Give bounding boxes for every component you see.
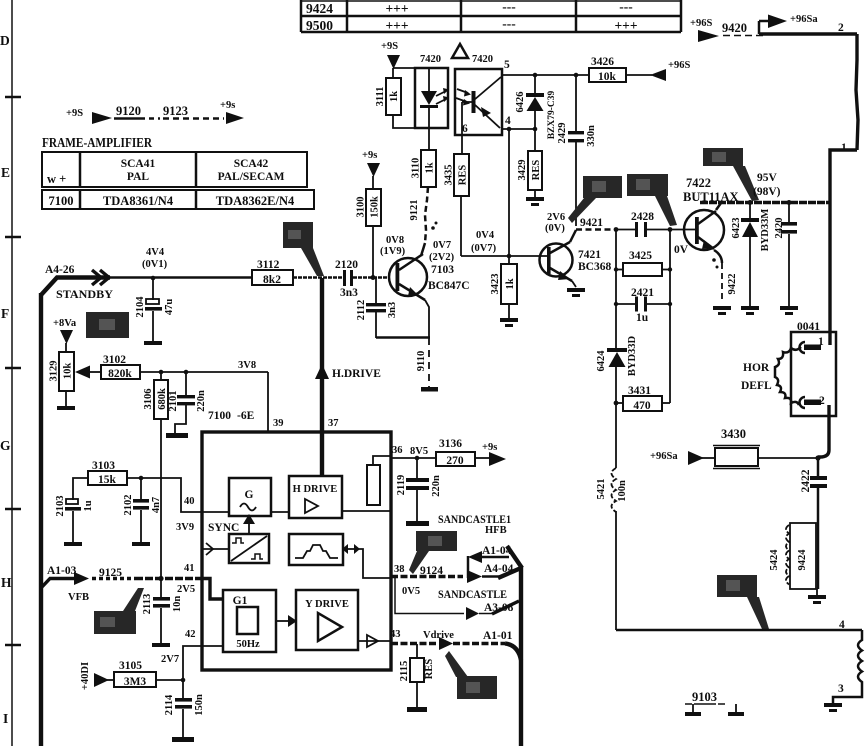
svg-text:220n: 220n (196, 390, 207, 412)
svg-text:3n3: 3n3 (387, 302, 398, 318)
svg-text:1k: 1k (425, 162, 436, 173)
svg-text:+40DI: +40DI (80, 662, 91, 690)
optocoupler 7420 LED box (415, 68, 448, 128)
svg-text:TDA8361/N4: TDA8361/N4 (103, 194, 174, 208)
wire pin 36 (391, 457, 436, 459)
wire right edge rail step (830, 150, 857, 203)
block H DRIVE (289, 476, 342, 518)
svg-text:37: 37 (328, 418, 339, 429)
svg-text:2420: 2420 (774, 218, 785, 239)
resistor 3100 150k (366, 189, 381, 226)
svg-text:H.DRIVE: H.DRIVE (332, 368, 381, 380)
wire emitter rail (376, 336, 430, 339)
svg-text:+96S: +96S (668, 60, 690, 71)
svg-text:STANDBY: STANDBY (56, 289, 114, 301)
svg-text:---: --- (619, 0, 633, 14)
wire 3111 bottom (393, 115, 429, 128)
svg-text:5424: 5424 (769, 549, 780, 571)
svg-text:+96Sa: +96Sa (650, 451, 678, 462)
svg-text:9422: 9422 (727, 274, 738, 295)
svg-text:7420: 7420 (472, 54, 493, 65)
svg-text:9121: 9121 (409, 200, 420, 221)
ground 7421 emitter (572, 281, 576, 287)
svg-text:10k: 10k (63, 363, 74, 380)
svg-text:5421: 5421 (596, 479, 607, 500)
svg-text:9424: 9424 (797, 549, 808, 571)
svg-text:47u: 47u (164, 299, 175, 316)
svg-text:150k: 150k (370, 196, 381, 218)
svg-text:2422: 2422 (800, 469, 812, 492)
wire pin41 internal (202, 579, 223, 600)
svg-text:---: --- (502, 0, 516, 14)
wire +9S to 3111 (392, 68, 394, 78)
svg-text:2: 2 (838, 22, 844, 34)
wire G1 to Y DRIVE (276, 620, 292, 622)
capacitor 2102 4n7 (140, 478, 142, 500)
svg-text:7100: 7100 (49, 194, 74, 208)
svg-text:3430: 3430 (721, 427, 746, 441)
svg-text:2428: 2428 (631, 211, 654, 223)
svg-text:+96S: +96S (690, 18, 712, 29)
capacitor 2113 10n (160, 578, 162, 598)
svg-text:PAL/SECAM: PAL/SECAM (218, 171, 285, 183)
svg-text:PAL: PAL (127, 171, 149, 183)
svg-text:A3-08: A3-08 (484, 602, 514, 614)
resistor 3435 RES (454, 154, 469, 196)
svg-text:2V6: 2V6 (547, 212, 565, 223)
svg-text:9125: 9125 (99, 567, 122, 579)
block sync separator (229, 534, 269, 563)
svg-text:-6E: -6E (237, 410, 255, 422)
wire 3103 left to 2103 (73, 478, 88, 500)
svg-text:3110: 3110 (411, 158, 422, 178)
wire 3100 to base node (372, 226, 374, 278)
svg-text:2113: 2113 (142, 594, 153, 614)
callout note 1 (283, 222, 313, 248)
callout note 9421a (583, 176, 622, 198)
grid tick G/H (5, 508, 21, 511)
wire A1-04 input (480, 556, 509, 559)
inductor 5421 100n (612, 468, 617, 512)
diode 6424 BYD33D (607, 348, 627, 352)
wire A-bar junction (467, 556, 470, 578)
svg-text:D: D (0, 33, 10, 48)
svg-text:3425: 3425 (629, 250, 652, 262)
wire 9110 dashed (428, 338, 430, 387)
svg-text:3: 3 (838, 683, 844, 695)
svg-text:8k2: 8k2 (263, 274, 281, 286)
capacitor 2429 330n (575, 75, 577, 131)
wire pin 42 (183, 646, 202, 699)
resistor 3111 1k (386, 78, 401, 115)
svg-text:+96Sa: +96Sa (790, 14, 818, 25)
svg-text:0V: 0V (674, 244, 689, 256)
svg-text:3136: 3136 (439, 438, 462, 450)
resistor 2115 RES (416, 644, 418, 658)
wire H.DRIVE vertical (320, 278, 324, 432)
svg-text:+9S: +9S (381, 41, 398, 52)
svg-text:0V5: 0V5 (402, 586, 420, 597)
svg-text:9123: 9123 (163, 104, 188, 118)
svg-text:1k: 1k (389, 91, 400, 102)
wire bottom rail (616, 629, 862, 632)
capacitor 2112 3n3 (375, 278, 377, 304)
svg-text:2101: 2101 (168, 391, 179, 412)
border frame left rule (11, 0, 13, 746)
svg-text:w +: w + (47, 172, 66, 186)
svg-text:+++: +++ (614, 18, 637, 33)
svg-text:10n: 10n (172, 596, 183, 613)
ground bottom right (824, 703, 842, 712)
connector 0041 box (791, 332, 836, 416)
grid tick F/G (5, 367, 21, 370)
svg-text:5: 5 (504, 59, 510, 71)
wire +96S top rail horizontal (759, 32, 857, 35)
svg-text:A4-26: A4-26 (45, 264, 75, 276)
svg-text:+++: +++ (385, 1, 408, 16)
block G1 (223, 590, 276, 652)
wire pin4 down to 3423 (508, 129, 510, 264)
wire pin 38 internal (358, 549, 391, 578)
svg-text:A4-04: A4-04 (484, 563, 514, 575)
wire pin37 into H DRIVE (320, 432, 324, 476)
transistor 7421 BC368 (540, 244, 573, 277)
callout note 9421b (627, 174, 668, 196)
svg-text:6423: 6423 (731, 218, 742, 239)
svg-text:RES: RES (424, 659, 435, 680)
svg-text:6: 6 (462, 123, 468, 135)
svg-text:3V8: 3V8 (238, 360, 256, 371)
callout note sandcastle (416, 531, 457, 551)
node H.DRIVE arrow (315, 364, 329, 379)
svg-text:BYD33D: BYD33D (627, 335, 638, 376)
svg-text:15k: 15k (98, 474, 117, 486)
svg-text:2102: 2102 (123, 495, 134, 516)
wire STANDBY vertical rail (39, 293, 43, 746)
wire rail 616 lower (615, 403, 617, 468)
phototransistor light arrows (457, 89, 468, 93)
svg-text:2421: 2421 (631, 287, 654, 299)
svg-text:SCA42: SCA42 (234, 158, 269, 170)
svg-text:(0V): (0V) (545, 223, 565, 234)
svg-text:220n: 220n (431, 475, 442, 497)
grid tick H/I (5, 644, 21, 647)
svg-text:I: I (3, 711, 8, 726)
svg-text:330n: 330n (586, 125, 597, 147)
svg-text:+9S: +9S (66, 108, 83, 119)
svg-text:7100: 7100 (208, 410, 231, 422)
wire connector rail (519, 566, 523, 746)
wire STANDBY rail corner (41, 278, 110, 296)
svg-text:2429: 2429 (557, 123, 568, 144)
svg-text:36: 36 (392, 445, 403, 456)
svg-text:H: H (1, 575, 12, 590)
capacitor 2422 (817, 458, 820, 477)
wire pin2 down rail (818, 405, 829, 457)
svg-text:HOR: HOR (743, 362, 770, 374)
inductor right edge (833, 630, 862, 703)
wire 9421 dashed (576, 228, 616, 231)
svg-text:3100: 3100 (356, 197, 367, 218)
svg-text:9120: 9120 (116, 104, 141, 118)
svg-text:680k: 680k (157, 388, 168, 410)
svg-text:1k: 1k (505, 278, 516, 289)
svg-text:470: 470 (633, 400, 651, 412)
block pulse shaper (289, 534, 343, 565)
svg-text:A1-01: A1-01 (483, 630, 513, 642)
svg-text:7420: 7420 (420, 54, 441, 65)
svg-text:7103: 7103 (431, 264, 454, 276)
wire 9125 VFB entry (41, 579, 76, 589)
wire 9121 dashed (425, 187, 428, 243)
svg-text:BYD33M: BYD33M (760, 209, 771, 252)
svg-text:2112: 2112 (356, 300, 367, 320)
diode 6426 BZX79-C39 (534, 75, 536, 93)
capacitor 2114 150n (175, 698, 192, 702)
svg-text:39: 39 (273, 418, 284, 429)
svg-text:(0V1): (0V1) (142, 259, 168, 270)
svg-text:3129: 3129 (49, 361, 60, 382)
callout note 95V (703, 148, 743, 166)
svg-text:4: 4 (505, 115, 511, 127)
svg-text:BZX79-C39: BZX79-C39 (547, 90, 557, 139)
svg-text:2120: 2120 (335, 259, 358, 271)
svg-text:2114: 2114 (164, 694, 175, 715)
svg-text:G1: G1 (233, 595, 248, 607)
svg-text:+9s: +9s (482, 442, 497, 453)
wire 3103 right / pin 40 (127, 478, 202, 512)
svg-text:50Hz: 50Hz (236, 639, 260, 650)
svg-text:+++: +++ (385, 18, 408, 33)
phototransistor symbol (472, 91, 476, 113)
svg-text:9424: 9424 (306, 1, 333, 16)
svg-text:RES: RES (458, 165, 469, 186)
ground 3429 (534, 190, 536, 197)
svg-text:SYNC: SYNC (208, 522, 239, 534)
wire right rail to connector (828, 203, 831, 345)
ground 3423 (508, 304, 510, 318)
svg-text:+8Va: +8Va (53, 318, 77, 329)
svg-text:9110: 9110 (416, 351, 427, 371)
node +96S arrow mid (650, 69, 666, 81)
node +9S arrow with wires 9120 9123 (66, 100, 244, 124)
svg-text:1u: 1u (83, 500, 94, 511)
svg-text:A1-03: A1-03 (47, 565, 77, 577)
svg-text:E: E (1, 165, 10, 180)
svg-text:G: G (245, 489, 254, 501)
svg-text:270: 270 (446, 455, 464, 467)
svg-text:7422: 7422 (686, 176, 711, 190)
svg-text:40: 40 (184, 496, 195, 507)
svg-text:9500: 9500 (306, 18, 333, 33)
ground 9422 (713, 306, 731, 315)
svg-text:H DRIVE: H DRIVE (293, 484, 338, 495)
grid tick E/F (5, 236, 21, 239)
callout note bottom right (717, 575, 757, 597)
wire 9422 emitter dashed (714, 250, 722, 263)
resistor 3429 RES (528, 151, 542, 190)
svg-text:2115: 2115 (399, 661, 410, 681)
svg-text:(2V2): (2V2) (429, 252, 455, 263)
svg-text:3426: 3426 (591, 56, 614, 68)
svg-text:(98V): (98V) (753, 186, 781, 198)
svg-text:Y DRIVE: Y DRIVE (305, 599, 349, 610)
wire rail 616 bottom (615, 511, 617, 630)
svg-text:0V7: 0V7 (433, 240, 451, 251)
svg-text:0V8: 0V8 (386, 235, 404, 246)
svg-text:10k: 10k (598, 71, 617, 83)
ground 5424 (816, 589, 818, 595)
wire rail right 670 (669, 230, 671, 404)
wire sync arrow up (248, 522, 250, 534)
svg-text:RES: RES (531, 160, 542, 181)
svg-text:F: F (1, 306, 9, 321)
svg-text:6426: 6426 (515, 92, 526, 113)
svg-text:HFB: HFB (485, 525, 507, 536)
comparison table top (301, 0, 681, 32)
callout note 2 (86, 312, 129, 338)
wire +96Sa branch (758, 21, 761, 34)
inductor 5424 / wire 9424 (790, 523, 816, 589)
svg-text:3111: 3111 (375, 87, 386, 107)
svg-text:9420: 9420 (722, 21, 747, 35)
ground 3129 (65, 391, 67, 406)
svg-text:3106: 3106 (143, 389, 154, 410)
capacitor 2103 1u (66, 499, 78, 504)
wire 3435 to 0V4 rail (460, 196, 462, 256)
ground 9103 left (692, 704, 694, 712)
ground 9103 right (735, 704, 737, 712)
svg-text:43: 43 (390, 629, 401, 640)
capacitor 2119 220n (416, 458, 418, 479)
svg-text:+9s: +9s (220, 100, 235, 111)
resistor 3129 10k (59, 352, 74, 391)
svg-text:G: G (0, 438, 11, 453)
wire G to H DRIVE (202, 511, 229, 513)
wire Vdrive A1-01 (391, 642, 437, 645)
wire pin5 rail (502, 74, 589, 76)
resistor 3110 1k (421, 150, 436, 187)
svg-text:(0V7): (0V7) (471, 243, 497, 254)
svg-text:9421: 9421 (580, 217, 603, 229)
svg-text:9103: 9103 (692, 690, 717, 704)
svg-text:820k: 820k (108, 368, 132, 380)
svg-text:---: --- (502, 16, 516, 31)
svg-text:1: 1 (841, 142, 847, 154)
svg-text:3423: 3423 (490, 274, 501, 295)
svg-text:3M3: 3M3 (124, 676, 147, 688)
svg-text:2103: 2103 (55, 496, 66, 517)
optocoupler 7420 phototransistor box (455, 69, 502, 135)
wire 3112 to 2120 (293, 276, 343, 279)
wire rail left 616 (615, 230, 617, 349)
svg-text:3V9: 3V9 (176, 522, 194, 533)
svg-text:VFB: VFB (68, 592, 89, 603)
wire 2120 to base (353, 276, 389, 279)
svg-text:9124: 9124 (420, 565, 443, 577)
svg-text:+9s: +9s (362, 150, 377, 161)
wire 95V rail (700, 201, 830, 204)
svg-text:2119: 2119 (396, 475, 407, 495)
callout note Vdrive (457, 676, 497, 699)
wire 9124 (391, 575, 463, 578)
svg-text:4V4: 4V4 (146, 247, 165, 258)
FRAME-AMPLIFIER table (42, 152, 314, 209)
wire right edge rail upper (856, 34, 858, 150)
svg-text:100n: 100n (617, 480, 628, 502)
op-amp U7100 outline box (202, 432, 391, 670)
wire STANDBY chevrons (92, 270, 109, 285)
wire pin 39 (267, 372, 269, 432)
wire HOR DEFL coil (775, 347, 801, 405)
LED light arrows (436, 91, 446, 96)
svg-text:38: 38 (394, 564, 405, 575)
block Y DRIVE (296, 590, 358, 650)
block G (229, 478, 271, 516)
capacitor 2420 (788, 203, 790, 223)
resistor 3106 680k (154, 380, 168, 419)
wire pin42 internal (202, 645, 223, 647)
svg-text:41: 41 (184, 563, 195, 574)
capacitor 2104 47u (152, 278, 154, 300)
svg-text:3105: 3105 (119, 660, 142, 672)
svg-text:150n: 150n (194, 694, 205, 716)
wire sync input (202, 548, 229, 550)
resistor internal (367, 465, 380, 505)
diode 6423 BYD33M (749, 203, 751, 219)
svg-text:1u: 1u (636, 312, 649, 324)
callout note VFB (94, 611, 136, 634)
wire Y DRIVE out (358, 640, 391, 642)
node +9s arrow right (489, 452, 506, 466)
svg-text:95V: 95V (757, 172, 778, 184)
capacitor 2101 220n (185, 372, 187, 396)
LED symbol (428, 68, 430, 91)
svg-text:TDA8362E/N4: TDA8362E/N4 (216, 194, 295, 208)
warning triangle (452, 44, 468, 58)
svg-text:SANDCASTLE: SANDCASTLE (438, 589, 507, 601)
wire 7103 emitter down (425, 300, 429, 337)
svg-text:3435: 3435 (444, 165, 455, 186)
svg-text:2104: 2104 (135, 296, 146, 318)
wire A3-08 (395, 577, 464, 614)
svg-text:Vdrive: Vdrive (423, 630, 454, 641)
svg-text:8V5: 8V5 (410, 446, 428, 457)
svg-text:42: 42 (185, 629, 196, 640)
svg-text:SCA41: SCA41 (121, 158, 156, 170)
svg-text:BC368: BC368 (578, 261, 611, 273)
grid tick D/E (5, 96, 21, 99)
svg-text:3n3: 3n3 (340, 287, 358, 299)
svg-text:2V5: 2V5 (177, 584, 195, 595)
svg-text:FRAME-AMPLIFIER: FRAME-AMPLIFIER (42, 135, 152, 150)
svg-text:3429: 3429 (517, 160, 528, 181)
resistor 3423 1k (501, 264, 517, 304)
svg-text:DEFL: DEFL (741, 380, 772, 392)
svg-text:7421: 7421 (578, 249, 601, 261)
svg-text:6424: 6424 (596, 350, 607, 372)
svg-text:BC847C: BC847C (428, 280, 470, 292)
wire double arrow (346, 548, 356, 550)
wire 0V4 base rail (461, 255, 547, 257)
svg-text:2V7: 2V7 (161, 654, 179, 665)
svg-text:0V4: 0V4 (476, 230, 495, 241)
svg-text:(1V9): (1V9) (380, 246, 406, 257)
wire pin4 rail (502, 128, 535, 130)
transistor 7103 BC847C (389, 258, 427, 296)
svg-text:4n7: 4n7 (151, 497, 162, 513)
